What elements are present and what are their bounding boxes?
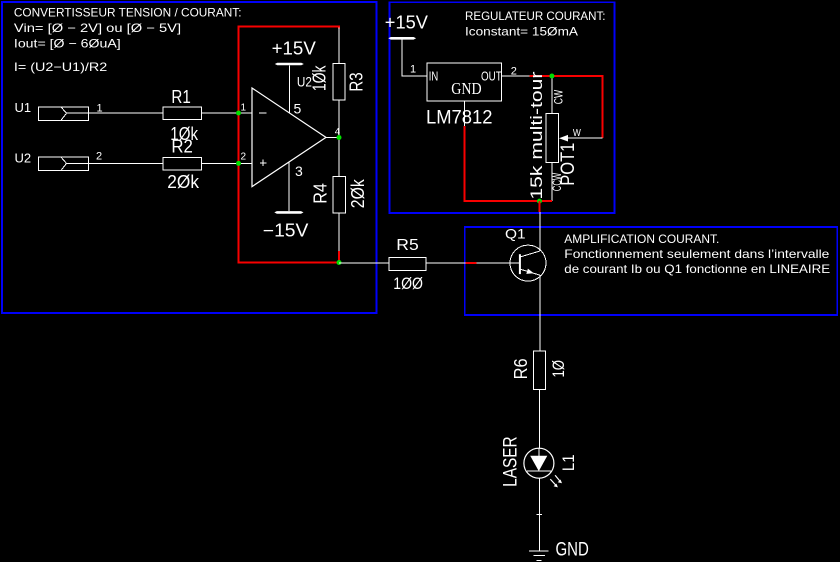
svg-text:2: 2 (96, 151, 102, 163)
red wire node to box edge (539, 201, 541, 212)
svg-text:Iout= [Ø − 6ØuA]: Iout= [Ø − 6ØuA] (14, 36, 121, 50)
svg-text:R2: R2 (171, 136, 193, 156)
svg-text:+15V: +15V (272, 39, 316, 59)
wire R5 to Q1 red part (465, 262, 476, 264)
svg-text:Vin= [Ø − 2V] ou [Ø − 5V]: Vin= [Ø − 2V] ou [Ø − 5V] (14, 21, 181, 35)
wire LED to ground (538, 478, 540, 550)
svg-text:3: 3 (295, 163, 303, 179)
svg-text:LASER: LASER (500, 436, 521, 487)
svg-text:I= (U2−U1)/R2: I= (U2−U1)/R2 (14, 60, 108, 74)
resistor R4 (333, 176, 346, 213)
svg-text:CW: CW (552, 89, 566, 104)
wire node4 to R4 (338, 138, 340, 177)
wire Q1 emitter down (539, 275, 541, 351)
regulator LM7812 box (427, 63, 502, 101)
svg-text:1: 1 (97, 102, 103, 114)
op-amp U2 triangle (252, 88, 326, 187)
wire R3 to node 4 (338, 100, 340, 137)
red wire LM7812 gnd pin (463, 101, 465, 126)
svg-text:CONVERTISSEUR TENSION / COURAN: CONVERTISSEUR TENSION / COURANT: (14, 6, 242, 20)
svg-text:1Ø: 1Ø (549, 360, 568, 378)
resistor R3 (333, 63, 345, 100)
svg-text:1: 1 (241, 103, 247, 114)
wire to Q1 collector (539, 212, 541, 251)
Q1 emitter arrow (526, 269, 534, 274)
node 1 junction dot (236, 111, 241, 116)
Q1 base bar (519, 254, 521, 274)
connector U2 (38, 157, 88, 170)
Q1 emitter (520, 269, 540, 275)
wire U2 to R2 (88, 162, 163, 164)
wire bottom node to R5 (339, 262, 389, 264)
svg-text:L1: L1 (559, 454, 578, 471)
wire node1 to op-amp (239, 112, 253, 114)
wire R4 to bottom node (338, 213, 340, 251)
svg-text:LM7812: LM7812 (426, 107, 493, 128)
resistor R2 (163, 158, 202, 170)
wire segment tick (537, 514, 543, 516)
wire pot bottom (551, 163, 553, 201)
svg-text:Iconstant= 15ØmA: Iconstant= 15ØmA (465, 24, 578, 38)
wire R5 to Q1 white part (426, 262, 465, 264)
Q1 collector (520, 251, 540, 257)
red wire pot top to wiper (552, 76, 603, 138)
svg-text:AMPLIFICATION COURANT.: AMPLIFICATION COURANT. (564, 232, 719, 246)
svg-text:GND: GND (451, 79, 481, 98)
LED wire through (538, 448, 540, 456)
svg-text:R4: R4 (310, 183, 330, 204)
node 4 junction dot (337, 135, 342, 140)
svg-text:R3: R3 (346, 72, 366, 91)
junction dot pot bottom (537, 199, 542, 204)
wire R2 to node 2 (202, 162, 239, 164)
wire OUT pin red to pot top (530, 75, 552, 77)
svg-text:2Øk: 2Øk (348, 178, 368, 208)
potentiometer POT1 body (546, 113, 559, 162)
wire node2 to op-amp (239, 162, 253, 164)
wire op-amp output (325, 137, 339, 139)
minus input symbol (259, 112, 267, 114)
svg-text:R6: R6 (511, 358, 531, 379)
svg-text:IN: IN (429, 70, 439, 84)
-15V supply op-amp (263, 162, 309, 241)
svg-text:OUT: OUT (481, 69, 502, 83)
+15V supply op-amp (272, 39, 316, 113)
node 2 junction dot (236, 161, 241, 166)
box REGULATEUR COURANT (390, 2, 615, 213)
connector U1 (38, 107, 88, 120)
svg-text:U2: U2 (15, 150, 32, 165)
svg-text:R5: R5 (396, 237, 419, 254)
LED L1 circle (524, 448, 554, 478)
wire pot top (551, 76, 553, 113)
svg-text:GND: GND (556, 540, 589, 561)
svg-text:1: 1 (410, 64, 416, 76)
svg-text:2: 2 (241, 152, 247, 163)
svg-text:15k multi-tour: 15k multi-tour (527, 71, 546, 199)
svg-text:U1: U1 (15, 100, 32, 115)
svg-text:de courant Ib ou Q1 fonctionne: de courant Ib ou Q1 fonctionne en LINEAI… (564, 262, 830, 276)
bottom node junction dot (337, 260, 342, 265)
resistor R1 (163, 107, 202, 119)
svg-text:Fonctionnement seulement dans: Fonctionnement seulement dans l’interval… (564, 247, 829, 261)
svg-text:Q1: Q1 (505, 226, 526, 242)
wire to R3 top (338, 28, 340, 64)
wire R1 to node 1 (202, 112, 239, 114)
svg-text:R1: R1 (171, 87, 190, 107)
svg-text:2Øk: 2Øk (167, 172, 200, 192)
box CONVERTISSEUR TENSION / COURANT (2, 2, 377, 313)
light arrow 2 (555, 475, 562, 483)
red wire left vertical (239, 113, 340, 263)
wire OUT pin white (502, 75, 530, 77)
svg-text:1Øk: 1Øk (309, 65, 329, 91)
resistor R5 (389, 257, 426, 270)
red wire stub below R4 (338, 251, 340, 263)
junction dot pot top (549, 74, 554, 79)
wiper arrow (559, 135, 568, 142)
svg-text:−15V: −15V (263, 221, 309, 241)
light arrow 1 (550, 479, 558, 487)
box AMPLIFICATION COURANT (465, 227, 838, 315)
wire to Q1 base (476, 262, 520, 264)
LED triangle (530, 456, 547, 471)
red feedback wire top (239, 26, 340, 113)
svg-text:W: W (573, 128, 581, 139)
ground symbol (529, 551, 548, 560)
+15V supply regulator (385, 13, 428, 76)
wire R6 to LED (538, 389, 540, 448)
svg-text:1ØØ: 1ØØ (393, 274, 423, 293)
resistor R6 (533, 351, 545, 389)
wire U1 to R1 (88, 112, 163, 114)
plus input symbol (260, 160, 267, 166)
red wire gnd down and right (464, 126, 552, 201)
svg-text:5: 5 (294, 100, 302, 116)
LED cathode bar (527, 470, 551, 472)
transistor Q1 circle (510, 245, 546, 281)
svg-text:REGULATEUR COURANT:: REGULATEUR COURANT: (465, 9, 606, 23)
wiper wire white (564, 137, 602, 139)
svg-text:+15V: +15V (385, 13, 428, 33)
